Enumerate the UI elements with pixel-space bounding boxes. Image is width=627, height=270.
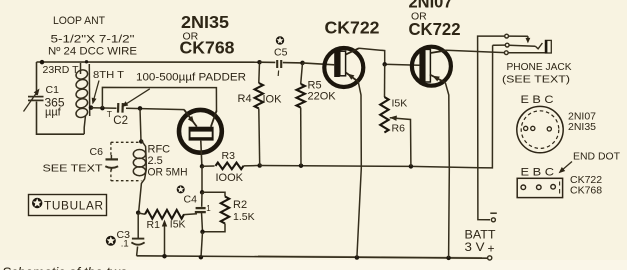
wire C2 to junction and Q1 emitter	[126, 108, 185, 109]
svg-text:CK768: CK768	[570, 185, 602, 197]
svg-text:CK722: CK722	[325, 18, 380, 38]
svg-text:C1: C1	[46, 84, 60, 96]
wire top bus from antenna to C5	[37, 61, 260, 63]
svg-text:3 V: 3 V	[465, 242, 485, 254]
svg-text:PHONE JACK: PHONE JACK	[507, 61, 572, 73]
wire jack ring from bias rail (drawn above)	[493, 44, 506, 46]
svg-text:CK768: CK768	[180, 38, 235, 58]
svg-text:22OK: 22OK	[308, 91, 337, 103]
node C6/RFC top	[139, 139, 143, 143]
svg-text:I5K: I5K	[170, 218, 186, 230]
svg-text:E B C: E B C	[521, 94, 554, 106]
svg-text:TUBULAR: TUBULAR	[44, 199, 103, 213]
resistor R4 10K	[258, 62, 261, 83]
phone jack	[505, 34, 509, 38]
svg-text:1: 1	[206, 204, 211, 213]
wire antenna box left+bottom	[36, 62, 38, 95]
svg-text:T: T	[107, 109, 112, 119]
wire padder feedback loop	[102, 87, 216, 111]
svg-text:E B C: E B C	[521, 166, 555, 178]
node padder left	[100, 106, 105, 111]
svg-text:2.5: 2.5	[148, 155, 163, 167]
wire jack tip to battery minus	[478, 36, 505, 220]
svg-text:I5K: I5K	[392, 97, 408, 109]
svg-text:C6: C6	[90, 146, 104, 158]
capacitor C6 in dashed box	[111, 141, 141, 143]
node C2/RFC junction	[138, 106, 143, 111]
node RFC/R1/C3	[136, 210, 141, 215]
resistor R6 15K rheostat	[384, 64, 386, 97]
svg-text:SEE TEXT: SEE TEXT	[43, 163, 104, 175]
svg-text:8TH T: 8TH T	[93, 69, 125, 81]
resistor R2 1.5K	[202, 192, 225, 196]
wire Q2 emitter down to rail	[357, 82, 361, 258]
svg-text:R6: R6	[392, 122, 406, 134]
node Q2 emitter/rail	[355, 255, 360, 260]
capacitor C2 trimmer	[117, 103, 120, 113]
antenna coil L1	[85, 60, 88, 63]
node R1 wiper/rail	[162, 254, 167, 259]
svg-text:.1: .1	[121, 239, 129, 250]
svg-text:µµf: µµf	[45, 107, 62, 119]
svg-text:OR 5MH: OR 5MH	[148, 167, 188, 179]
wire Q2 collector to Q3 base	[359, 48, 419, 65]
node R6 wiper/rail	[409, 164, 414, 169]
svg-text:R1: R1	[147, 219, 161, 231]
node base network/rail	[199, 255, 204, 260]
capacitor C1 365uuf variable	[28, 96, 44, 98]
resistor R3 100K	[202, 165, 215, 167]
svg-text:23RD T: 23RD T	[43, 64, 80, 76]
svg-text:R4: R4	[238, 93, 252, 105]
legend tubular box	[29, 195, 107, 216]
svg-text:IOK: IOK	[263, 94, 283, 106]
transistor Q1 2N135/CK768	[179, 110, 222, 153]
svg-text:END DOT: END DOT	[573, 151, 621, 163]
svg-text:2NI35: 2NI35	[181, 12, 229, 32]
wire Q3 emitter to rail	[445, 83, 449, 258]
resistor R5 220K	[301, 63, 303, 84]
svg-text:IOOK: IOOK	[216, 172, 244, 184]
node Q3 emitter/rail	[446, 256, 451, 261]
node base/R3	[200, 164, 205, 169]
svg-text:C4: C4	[184, 194, 198, 206]
node R4 top	[257, 60, 262, 64]
battery terminals 3V	[491, 218, 495, 222]
capacitor C3 .1	[137, 213, 139, 238]
capacitor C4	[201, 192, 203, 207]
svg-text:2NI35: 2NI35	[568, 121, 596, 133]
svg-text:R3: R3	[222, 150, 236, 162]
svg-text:R2: R2	[233, 199, 247, 211]
svg-text:RFC: RFC	[148, 143, 171, 155]
node Q3 base/R6	[382, 62, 387, 67]
svg-text:CK722: CK722	[409, 19, 461, 39]
wire bottom rail	[258, 256, 482, 258]
svg-text:LOOP ANT: LOOP ANT	[53, 15, 105, 27]
svg-text:Nº 24 DCC WIRE: Nº 24 DCC WIRE	[48, 46, 137, 58]
svg-text:5-1/2"X 7-1/2": 5-1/2"X 7-1/2"	[51, 34, 135, 46]
node A	[201, 166, 203, 192]
svg-text:BATT: BATT	[465, 230, 496, 242]
svg-text:(SEE TEXT): (SEE TEXT)	[502, 73, 570, 85]
node coil tap	[89, 105, 94, 110]
svg-text:C5: C5	[274, 47, 288, 59]
node R3/R4	[257, 163, 262, 168]
node 23rd turn tap	[40, 60, 45, 65]
wire junction down to RFC	[140, 108, 141, 141]
svg-text:C2: C2	[113, 115, 128, 127]
svg-text:+: +	[488, 242, 495, 256]
node R5 bottom	[299, 163, 304, 168]
wire tap to C2	[91, 107, 117, 110]
svg-text:100-500µµf PADDER: 100-500µµf PADDER	[136, 72, 246, 84]
node B	[200, 230, 205, 235]
wire Q3 collector to jack sleeve	[447, 50, 505, 52]
capacitor C5 (series, tubular)	[260, 61, 276, 63]
inductor RFC 2.5/5MH choke	[139, 140, 147, 213]
node R5 top	[300, 61, 305, 66]
resistor R1 15K pot	[138, 213, 145, 214]
svg-text:1.5K: 1.5K	[233, 211, 255, 223]
svg-text:Schematic of the two: Schematic of the two	[2, 265, 128, 270]
